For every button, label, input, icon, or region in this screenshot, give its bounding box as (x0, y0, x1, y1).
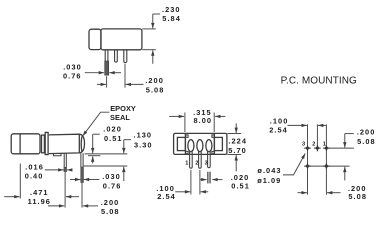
svg-text:.230: .230 (162, 5, 181, 14)
svg-text:1: 1 (323, 141, 326, 147)
svg-text:5.70: 5.70 (228, 146, 247, 155)
svg-text:.200: .200 (145, 76, 164, 85)
svg-text:2: 2 (312, 141, 315, 147)
svg-text:2: 2 (195, 161, 198, 167)
svg-text:P.C. MOUNTING: P.C. MOUNTING (281, 76, 357, 87)
svg-text:.030: .030 (63, 63, 82, 72)
svg-text:5.08: 5.08 (357, 137, 376, 146)
svg-text:.016: .016 (25, 163, 44, 172)
svg-text:SEAL: SEAL (110, 113, 130, 122)
svg-text:0.76: 0.76 (103, 182, 122, 191)
svg-text:2.54: 2.54 (269, 126, 288, 135)
svg-text:.020: .020 (103, 125, 122, 134)
svg-text:EPOXY: EPOXY (110, 104, 136, 113)
svg-text:0.76: 0.76 (63, 71, 82, 80)
svg-text:5.08: 5.08 (101, 207, 120, 216)
svg-text:1: 1 (185, 160, 188, 166)
svg-text:3.30: 3.30 (134, 141, 153, 150)
svg-text:ø1.09: ø1.09 (257, 176, 281, 185)
svg-text:.100: .100 (270, 116, 289, 125)
svg-text:5.84: 5.84 (162, 14, 181, 23)
svg-text:0.40: 0.40 (25, 171, 44, 180)
svg-text:0.51: 0.51 (104, 134, 123, 143)
svg-text:.200: .200 (101, 198, 120, 207)
svg-text:.200: .200 (357, 127, 376, 136)
svg-text:8.00: 8.00 (194, 116, 213, 125)
svg-text:.224: .224 (228, 136, 247, 145)
svg-text:3: 3 (302, 141, 305, 147)
svg-text:ø.043: ø.043 (257, 166, 281, 175)
svg-text:0.51: 0.51 (231, 182, 250, 191)
svg-text:5.08: 5.08 (146, 86, 165, 95)
svg-text:3: 3 (205, 160, 208, 166)
svg-text:11.96: 11.96 (28, 197, 51, 206)
svg-text:2.54: 2.54 (157, 192, 176, 201)
svg-text:.130: .130 (134, 130, 153, 139)
svg-text:.020: .020 (231, 173, 250, 182)
svg-text:5.08: 5.08 (348, 192, 367, 201)
svg-text:.471: .471 (30, 188, 49, 197)
svg-text:.030: .030 (102, 172, 121, 181)
